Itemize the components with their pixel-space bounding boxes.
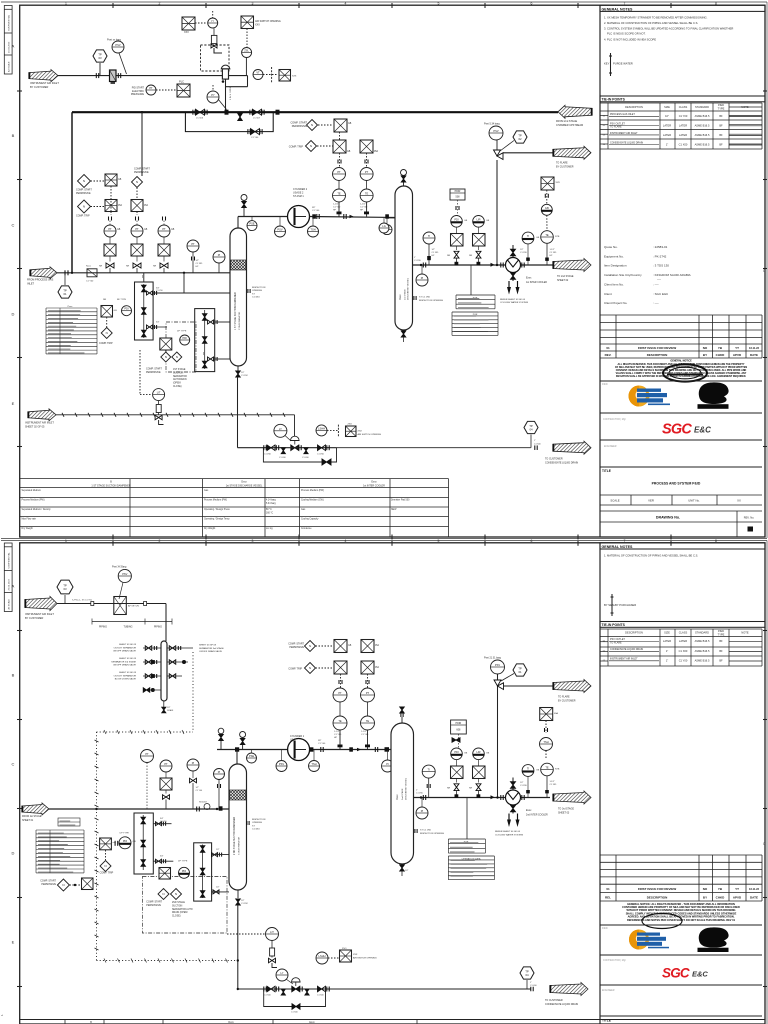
- junction: [183, 272, 185, 274]
- instrument bubble: [180, 335, 190, 345]
- svg-text:1/2": 1/2": [196, 260, 200, 262]
- svg-text:1-1/2": 1-1/2": [550, 781, 556, 783]
- svg-text:NEW: NEW: [391, 509, 397, 511]
- general notes header box: [600, 5, 765, 11]
- air filter: [110, 70, 117, 82]
- svg-text:ZSO: ZSO: [348, 424, 353, 426]
- after cooler TI: [522, 232, 534, 244]
- flange pair: [366, 680, 369, 684]
- logic diamond: [158, 889, 169, 900]
- flange pair: [247, 821, 249, 825]
- svg-text:Max Flow rate: Max Flow rate: [22, 518, 37, 521]
- from 2nd stage flag: [558, 105, 592, 118]
- svg-text:YT: YT: [735, 346, 739, 350]
- sheet2 box2 inline valve: [200, 868, 205, 875]
- svg-text:CHKD: CHKD: [716, 896, 725, 900]
- sheet2 discharge line: [310, 749, 392, 751]
- svg-text:TE: TE: [338, 719, 342, 723]
- flow arrow before cooler: [491, 263, 495, 267]
- flange pair: [338, 160, 341, 164]
- svg-text:05A: 05A: [375, 644, 380, 647]
- sheet2 vessel D top valve: [401, 717, 403, 723]
- instrument bubble: [160, 760, 172, 772]
- svg-text:C1 1N4: C1 1N4: [252, 297, 260, 299]
- svg-text:ST ASM 1: ST ASM 1: [293, 195, 304, 198]
- junction: [237, 959, 239, 961]
- svg-text:PY: PY: [211, 93, 215, 97]
- svg-text:Separated Medium / Density: Separated Medium / Density: [22, 508, 52, 511]
- svg-text:PT: PT: [149, 86, 153, 90]
- LV valve: [291, 445, 299, 451]
- instrument bubble: [276, 761, 287, 772]
- svg-text:2ND STAGE: 2ND STAGE: [172, 901, 185, 904]
- svg-text:4: 4: [345, 539, 347, 543]
- svg-text:02: 02: [518, 137, 522, 141]
- svg-text:ASME B16.5: ASME B16.5: [695, 649, 710, 653]
- svg-text:CLOSE): CLOSE): [172, 916, 181, 918]
- signal up: [212, 11, 214, 18]
- svg-text:----: ----: [657, 278, 661, 282]
- svg-text:NR: NR: [99, 266, 103, 268]
- svg-text:LSHH: LSHH: [319, 954, 326, 958]
- flange pair: [154, 325, 156, 329]
- svg-text:SHEET 03 GF 09: SHEET 03 GF 09: [119, 658, 137, 660]
- flange pair: [218, 784, 221, 788]
- svg-text:Process Medium (PW): Process Medium (PW): [301, 489, 324, 492]
- signal dash: [195, 22, 207, 24]
- VT bubble: [253, 70, 263, 80]
- junction: [420, 796, 422, 798]
- svg-text:1-1/2": 1-1/2": [550, 249, 556, 251]
- svg-text:LATER: LATER: [663, 639, 671, 643]
- panel square: [100, 838, 112, 850]
- valve: [305, 989, 309, 995]
- svg-text:CONDENSATE LIQUID DRAIN: CONDENSATE LIQUID DRAIN: [610, 142, 643, 145]
- valve: [304, 448, 308, 454]
- svg-text:6: 6: [531, 2, 533, 6]
- off-page arrow: [553, 259, 591, 272]
- svg-text:1.: 1.: [0, 1014, 4, 1016]
- logic diamond: [57, 879, 69, 891]
- svg-text:REV. No.: REV. No.: [744, 516, 755, 520]
- sheet 2 title panel divider: [599, 543, 601, 1024]
- svg-text:NOTE: NOTE: [741, 631, 748, 635]
- svg-text:508: 508: [456, 196, 461, 199]
- svg-text:C1 Y00: C1 Y00: [160, 821, 168, 823]
- svg-text:AIR SWITCH OPENING: AIR SWITCH OPENING: [358, 433, 382, 436]
- sheet2 vessel top stub: [236, 750, 238, 765]
- panel square: [160, 338, 172, 350]
- svg-text:C1 Y00: C1 Y00: [251, 137, 259, 139]
- svg-text:DISCHARGE VESSEL: DISCHARGE VESSEL: [405, 777, 408, 800]
- svg-text:Demister Pad 500: Demister Pad 500: [391, 498, 410, 501]
- cooler inlet valve black: [512, 245, 514, 258]
- svg-text:PIPING: PIPING: [154, 626, 162, 629]
- svg-text:OUTLET SEPARATOR: OUTLET SEPARATOR: [114, 646, 137, 649]
- sheet2 cooler valve: [511, 782, 516, 789]
- logic diamond: [172, 352, 182, 362]
- box1 inline valve: [142, 285, 147, 292]
- sheet 2 outer trim line: [1, 541, 767, 1024]
- sheet2 box1 branch b: [153, 860, 173, 862]
- svg-text:PT: PT: [191, 242, 195, 246]
- svg-text:ASME B16.5: ASME B16.5: [695, 114, 710, 118]
- svg-text:TE: TE: [365, 192, 369, 196]
- valve: [401, 176, 406, 182]
- svg-text:SHEET 01: SHEET 01: [22, 819, 34, 822]
- svg-text:1/2": 1/2": [405, 870, 409, 872]
- svg-text:GB: GB: [536, 237, 540, 239]
- transmitter chain B x366: [366, 153, 368, 168]
- svg-text:Cooling Medium (CW): Cooling Medium (CW): [301, 499, 324, 501]
- svg-text:D: D: [12, 851, 15, 856]
- sheet2 condensate flag: [550, 983, 588, 996]
- sheet 2 disclaimer block: [622, 902, 740, 922]
- flange pair: [456, 206, 459, 210]
- flange pair: [193, 110, 195, 115]
- svg-text:2nd INTER COOLER: 2nd INTER COOLER: [526, 814, 548, 816]
- svg-text:ENGINEER: ENGINEER: [604, 445, 617, 448]
- svg-text:INLET: INLET: [27, 282, 35, 285]
- svg-text:BY SEAL: BY SEAL: [604, 603, 616, 607]
- panel square start: [334, 119, 347, 132]
- svg-text:C1 1N5: C1 1N5: [416, 793, 424, 795]
- dashed bar at VT: [271, 67, 273, 82]
- svg-text:2. MATERIAL OF CONSTRUCTION OF: 2. MATERIAL OF CONSTRUCTION OF PIPING AN…: [604, 21, 698, 25]
- sheet2 after cooler instruments: [522, 765, 534, 777]
- svg-text:SHEET 03 GF 09: SHEET 03 GF 09: [119, 672, 137, 674]
- svg-text:C 0N08 PARATOR: C 0N08 PARATOR: [238, 836, 241, 855]
- instrument bubble: [214, 769, 225, 780]
- vent valve with ball: [243, 208, 245, 217]
- instrument bubble: [541, 231, 554, 244]
- svg-text:NTB: NTB: [555, 769, 560, 771]
- box1 inline valve: [142, 330, 147, 337]
- junction: [74, 884, 76, 886]
- box2 inline valve: [202, 361, 207, 368]
- junction: [95, 808, 97, 810]
- valve: [145, 660, 152, 665]
- svg-text:PDI: PDI: [123, 839, 128, 843]
- compressor cylinder label: [293, 188, 308, 198]
- svg-text:C1 Y00: C1 Y00: [334, 734, 342, 736]
- svg-text:PURGE WATER: PURGE WATER: [613, 62, 633, 66]
- sheet 1 left margin revision boxes: [4, 6, 12, 75]
- PSE bubble: [247, 221, 257, 231]
- svg-text:PROCESS AND SYSTEM P&ID: PROCESS AND SYSTEM P&ID: [652, 482, 701, 486]
- instrument bubble: [104, 225, 116, 237]
- instrument bubble: [423, 232, 435, 244]
- line break squares: [91, 602, 94, 606]
- left process drop: [71, 112, 73, 273]
- svg-text:CONTRACTOR | Mgr: CONTRACTOR | Mgr: [603, 959, 626, 962]
- revision table sheet 1: [600, 315, 762, 358]
- valve: [267, 986, 275, 992]
- svg-text:LIR: LIR: [476, 218, 480, 222]
- flange pair: [219, 853, 221, 857]
- PI at inlet: [213, 251, 225, 263]
- to flare flag: [553, 146, 591, 159]
- svg-text:XXX: XXX: [255, 24, 260, 27]
- svg-text:Pset XX Barg: Pset XX Barg: [112, 566, 127, 569]
- svg-text:1ST STAGE: 1ST STAGE: [173, 368, 186, 371]
- svg-text:PRESSURE: PRESSURE: [131, 93, 145, 96]
- dash to LIT: [139, 350, 141, 395]
- valve: [253, 109, 262, 115]
- valve: [169, 674, 176, 679]
- condensate drop line: [237, 377, 239, 448]
- svg-text:PDI: PDI: [454, 750, 459, 754]
- svg-text:04: 04: [525, 973, 529, 977]
- svg-text:XXX: XXX: [358, 431, 363, 433]
- svg-text:XXX: XXX: [556, 182, 561, 184]
- svg-text:N: N: [83, 179, 85, 183]
- vessel D top vent valve: [403, 182, 405, 186]
- panel square: [104, 244, 116, 256]
- svg-text:1: 1: [65, 539, 67, 543]
- PSV leader: [119, 53, 127, 74]
- svg-text:P&ID: P&ID: [718, 103, 724, 107]
- svg-text:OPERATION DATA: OPERATION DATA: [462, 857, 481, 860]
- tie-in points header box: [600, 96, 765, 102]
- svg-text:TE: TE: [545, 766, 549, 770]
- sheet 2 contractor cell: [600, 954, 762, 956]
- svg-text:1: 1: [65, 2, 67, 6]
- svg-text:CLASS: CLASS: [679, 105, 688, 109]
- panel square: [101, 306, 113, 318]
- valve: [454, 251, 459, 258]
- svg-text:BY PURCHASER: BY PURCHASER: [615, 603, 636, 607]
- svg-text:Dry Weight: Dry Weight: [22, 527, 34, 530]
- box1 feed stub: [143, 273, 145, 282]
- svg-text:P&ID: P&ID: [602, 927, 608, 930]
- svg-text:DRAIN (OPEN/: DRAIN (OPEN/: [172, 911, 188, 914]
- svg-text:DRAWING No.: DRAWING No.: [656, 516, 680, 520]
- svg-text:1/2": 1/2": [216, 849, 220, 851]
- flange pair: [248, 129, 250, 134]
- logic diamond: [78, 175, 91, 188]
- svg-text:: ----: : ----: [653, 283, 659, 287]
- sheet 2 border ticks: [17, 541, 767, 987]
- line box1 to vessel: [153, 292, 230, 294]
- panel square: [241, 16, 254, 29]
- logic diamond: [171, 889, 182, 900]
- svg-text:LATER: LATER: [663, 133, 671, 137]
- svg-text:C1 1N5: C1 1N5: [432, 252, 440, 254]
- valve: [242, 202, 247, 208]
- vessel 2nd stage discharge: [391, 723, 414, 864]
- panel square: [158, 244, 170, 256]
- svg-text:4. PLC IS NOT INCLUDED IN NEA: 4. PLC IS NOT INCLUDED IN NEA SCOPE: [604, 38, 656, 42]
- LY leader: [285, 436, 291, 442]
- svg-text:Pset xx barg: Pset xx barg: [107, 39, 122, 42]
- svg-text:TO FLARE: TO FLARE: [610, 126, 622, 129]
- flange pair: [109, 217, 112, 221]
- svg-text:BF: BF: [719, 133, 723, 137]
- svg-text:SHEET 03 GF 08: SHEET 03 GF 08: [199, 645, 217, 647]
- line box2 to vessel b: [215, 358, 230, 360]
- flange pair: [365, 160, 368, 164]
- TSH under line: [308, 226, 319, 237]
- flange pair: [264, 445, 266, 450]
- valve: [162, 707, 166, 713]
- svg-text:Client: Client: [604, 292, 612, 296]
- svg-text:LIT: LIT: [270, 930, 274, 934]
- svg-text:N: N: [62, 883, 64, 887]
- svg-text:COOLING WATER SYSTEM: COOLING WATER SYSTEM: [500, 301, 528, 304]
- panel square: [473, 766, 486, 779]
- valve: [236, 899, 241, 905]
- panel square: [82, 878, 94, 890]
- sheet2 instrument air inlet flag: [25, 597, 57, 611]
- svg-text:PUR: PUR: [473, 298, 478, 300]
- instrument bubble: [540, 738, 553, 751]
- PT bubble: [146, 85, 156, 95]
- svg-text:BY CUSTOMER: BY CUSTOMER: [25, 617, 43, 620]
- piping tubing bracket: [92, 619, 172, 625]
- svg-text:1-1/2": 1-1/2": [360, 204, 366, 206]
- svg-text:AIR SWITCH OPENING: AIR SWITCH OPENING: [255, 20, 281, 23]
- junction on header: [141, 111, 143, 113]
- instrument bubble: [361, 716, 375, 730]
- sheet2 vent valve with ball: [242, 745, 244, 750]
- sheet 2 engineer cell: [600, 984, 762, 986]
- manifold right branches: [167, 647, 193, 649]
- dampener demister pad: [231, 260, 246, 270]
- svg-text:XXX: XXX: [292, 76, 297, 78]
- svg-text:1. MATERIAL OF CONSTRUCTION: 1. MATERIAL OF CONSTRUCTION OF PIPING AN…: [604, 554, 698, 558]
- svg-text:BF: BF: [719, 649, 723, 653]
- svg-text:160 °C: 160 °C: [266, 513, 273, 515]
- svg-text:PT: PT: [145, 752, 149, 756]
- ZSL bubble: [242, 48, 252, 58]
- svg-text:5: 5: [438, 539, 440, 543]
- logic diamond: [100, 861, 111, 872]
- flange pair: [276, 445, 278, 450]
- drawing number row: [600, 510, 762, 512]
- sheet2 cluster B: [473, 748, 485, 760]
- svg-text:10": 10": [665, 114, 669, 118]
- svg-text:TYPE: TYPE: [718, 107, 725, 111]
- svg-text:TI: TI: [428, 768, 431, 772]
- sheet2 cooler inlet valve black: [512, 778, 514, 791]
- valve: [160, 263, 168, 268]
- svg-text:LATER: LATER: [679, 639, 687, 643]
- svg-text:BLOW DOWN VALVE: BLOW DOWN VALVE: [115, 678, 137, 681]
- svg-text:PDI: PDI: [454, 218, 459, 222]
- svg-text:STANDARD: STANDARD: [695, 631, 709, 635]
- svg-text:XT C1 1N5: XT C1 1N5: [420, 830, 432, 832]
- svg-text:REL: REL: [605, 896, 611, 900]
- spectacle blind black: [225, 110, 229, 115]
- svg-text:NR: NR: [153, 266, 157, 268]
- svg-text:PDI: PDI: [124, 307, 129, 311]
- air header with ticks: [56, 413, 295, 417]
- valve: [219, 735, 224, 741]
- flange pair: [178, 646, 180, 650]
- svg-text:C1 1N5: C1 1N5: [520, 252, 528, 254]
- svg-text:PT: PT: [162, 227, 166, 231]
- panel square: [473, 234, 486, 247]
- general notes text: [604, 15, 733, 41]
- discharge junction at vessel D: [385, 214, 389, 218]
- PT chain B: [360, 168, 373, 181]
- box2 inline valve: [202, 337, 207, 344]
- svg-text:PROCESS GAS INLET: PROCESS GAS INLET: [610, 113, 635, 116]
- flange pair: [327, 987, 329, 992]
- svg-text:PDIR: PDIR: [456, 722, 462, 725]
- process gas inlet line: [57, 272, 230, 274]
- svg-text:PT: PT: [366, 691, 370, 695]
- sheet2 box2 to vessel b: [212, 891, 229, 893]
- cooler condensate drop: [470, 265, 472, 295]
- svg-text:DP TYPE: DP TYPE: [177, 331, 187, 333]
- svg-text:TE: TE: [337, 192, 341, 196]
- svg-text:16.11.23: 16.11.23: [749, 887, 760, 891]
- svg-text:COOLING WATER SYSTEM: COOLING WATER SYSTEM: [495, 833, 523, 836]
- svg-text:PI: PI: [421, 809, 424, 813]
- TP-02 leader: [500, 141, 514, 152]
- sheet2 vessel top junction: [235, 747, 239, 751]
- svg-text:INSPECTION OPENING: INSPECTION OPENING: [419, 300, 443, 302]
- flange pair: [545, 728, 548, 732]
- svg-text:C1 Y00: C1 Y00: [679, 114, 688, 118]
- flare PSV branch: [496, 160, 498, 265]
- svg-text:CONFIDENTIAL: CONFIDENTIAL: [8, 552, 11, 569]
- svg-text:BY CUSTOMER: BY CUSTOMER: [30, 86, 48, 89]
- transmitter chain A x339: [339, 153, 341, 168]
- svg-text:SEPARATOR AUTO: SEPARATOR AUTO: [172, 908, 193, 911]
- sheet2 box1 inline valve: [141, 860, 146, 867]
- svg-text:C1 Y00: C1 Y00: [318, 743, 326, 745]
- PDI bubble: [122, 306, 132, 316]
- svg-text:05A: 05A: [118, 204, 123, 207]
- valve: [476, 784, 481, 791]
- svg-text:Cooling Capacity: Cooling Capacity: [301, 518, 319, 521]
- svg-text:1/2": 1/2": [216, 887, 220, 889]
- sheet2 separator box 1: [134, 813, 153, 874]
- svg-text:FROM PROCESS GAS: FROM PROCESS GAS: [27, 279, 54, 282]
- sheet2 condensate drop: [237, 905, 239, 989]
- svg-text:ASME B16.5: ASME B16.5: [695, 124, 710, 128]
- svg-text:NR: NR: [447, 255, 451, 257]
- svg-text:GB: GB: [114, 310, 118, 312]
- svg-text:N: N: [106, 331, 108, 335]
- svg-text:2nd STAGE: 2nd STAGE: [401, 788, 404, 800]
- table: [456, 295, 495, 309]
- svg-text:PERMISSIVE: PERMISSIVE: [146, 904, 161, 907]
- valve: [400, 865, 405, 871]
- flange pair: [205, 110, 207, 115]
- svg-text:NOTE: NOTE: [741, 105, 748, 109]
- svg-text:C1 1N5: C1 1N5: [414, 260, 422, 262]
- flange pair: [136, 217, 139, 221]
- cooling water arrows: [507, 287, 520, 295]
- svg-text:PT: PT: [365, 170, 369, 174]
- svg-text:BY: BY: [703, 353, 707, 357]
- svg-text:E: E: [12, 940, 15, 945]
- svg-text:NOZZLE: NOZZLE: [199, 802, 208, 804]
- sheet 1 border frame: [20, 5, 765, 537]
- flange pair: [154, 674, 156, 678]
- svg-text:PERMISSIVE: PERMISSIVE: [41, 883, 56, 886]
- sheet2 inlet junction square: [219, 806, 223, 810]
- svg-text:C1 Y00: C1 Y00: [86, 281, 94, 283]
- svg-text:LY: LY: [279, 427, 282, 431]
- junction: [496, 796, 498, 798]
- tie point TP-02: [513, 131, 527, 143]
- svg-text:N: N: [309, 644, 311, 648]
